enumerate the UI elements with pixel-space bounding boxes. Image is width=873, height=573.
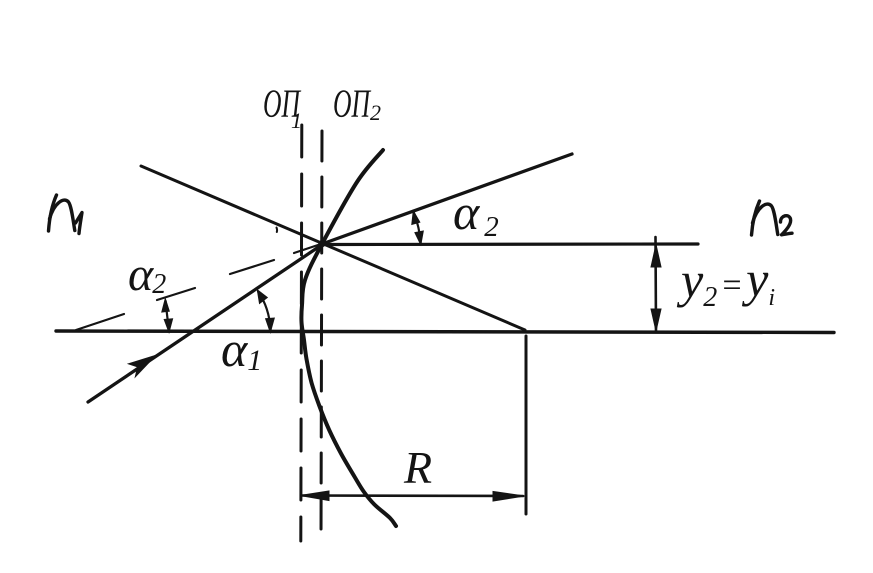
dashed backward extension of refracted ray (segment 1) (76, 314, 124, 330)
label n1 (49, 195, 83, 234)
ink blob at ray crossing point (318, 240, 325, 247)
svg-text:R: R (403, 442, 432, 493)
refracted ray (322, 154, 572, 244)
alpha2 right angle marker (double arrow) (414, 213, 421, 244)
R dimension line (302, 494, 523, 497)
principal plane line OP1 (dashed vertical) (301, 125, 302, 541)
svg-text:α1: α1 (221, 321, 262, 377)
svg-text:α2: α2 (453, 184, 499, 243)
radius vertical line at center of curvature (525, 336, 528, 514)
svg-text:α2: α2 (128, 248, 166, 301)
label n2 (752, 201, 793, 235)
svg-text:y2=yi: y2=yi (676, 251, 775, 313)
y2 dimension double arrow (654, 237, 657, 332)
horizontal reference line from vertex point (322, 242, 698, 246)
small pen mark near extension ray (276, 228, 279, 233)
incident ray (88, 244, 323, 402)
y2 top arrowhead (651, 245, 661, 268)
svg-text:ОП: ОП (333, 81, 371, 126)
spherical refracting surface (arc) (301, 150, 396, 526)
principal plane line OP2 (dashed vertical) (321, 127, 322, 541)
ray through center of curvature (backward extension) (141, 166, 525, 330)
R dimension right arrowhead (493, 492, 525, 502)
svg-text:2: 2 (370, 100, 381, 125)
y2 bottom arrowhead (651, 309, 661, 331)
svg-text:1: 1 (291, 108, 302, 133)
alpha2 left angle marker (double arrow) (166, 301, 169, 330)
incident ray arrowhead (129, 356, 156, 377)
alpha1 angle marker (curved double arrow) (258, 292, 271, 331)
dashed backward extension of refracted ray (segment 3) (230, 260, 274, 274)
optical axis (56, 331, 834, 333)
R dimension left arrowhead (300, 491, 329, 501)
dashed backward extension of refracted ray (segment 4) (294, 245, 318, 253)
dashed backward extension of refracted ray (segment 2) (157, 288, 195, 300)
